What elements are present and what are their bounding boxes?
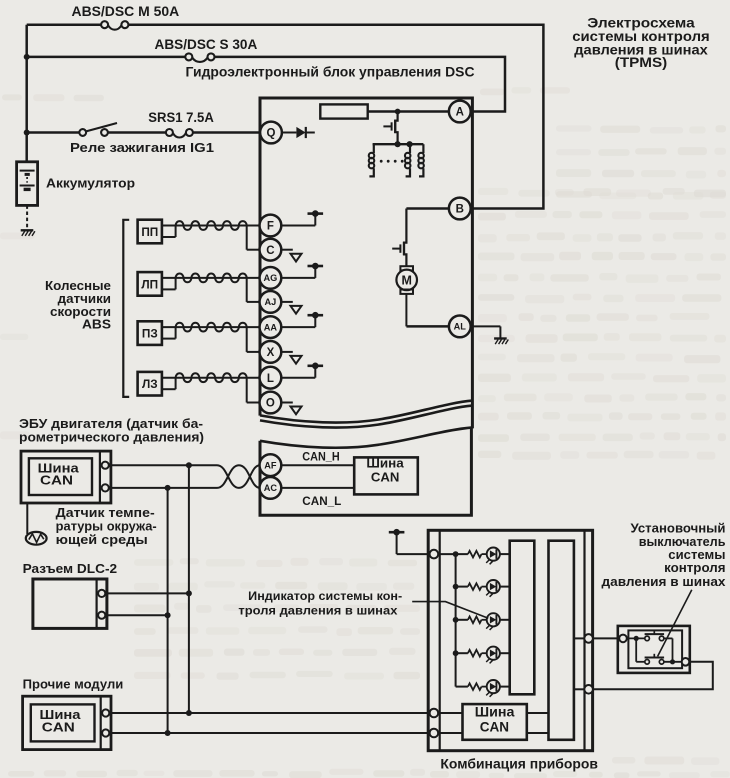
svg-text:CAN_H: CAN_H	[302, 450, 339, 463]
svg-text:системы: системы	[668, 548, 725, 562]
svg-text:датчики: датчики	[58, 292, 111, 306]
svg-text:C: C	[266, 245, 274, 257]
svg-text:SRS1 7.5A: SRS1 7.5A	[148, 110, 214, 125]
svg-text:Шина: Шина	[475, 704, 515, 720]
svg-text:Колесные: Колесные	[45, 279, 111, 293]
svg-text:ЛЗ: ЛЗ	[142, 377, 158, 391]
svg-text:AL: AL	[454, 322, 467, 332]
svg-text:AA: AA	[264, 322, 278, 332]
svg-text:F: F	[267, 221, 274, 233]
svg-text:AF: AF	[264, 461, 277, 471]
svg-text:Индикатор системы кон-: Индикатор системы кон-	[248, 589, 402, 603]
svg-text:ABS/DSC S 30A: ABS/DSC S 30A	[155, 37, 258, 52]
svg-text:CAN: CAN	[371, 469, 400, 484]
svg-text:выключатель: выключатель	[639, 535, 726, 549]
svg-text:CAN: CAN	[40, 473, 73, 488]
svg-text:давления в шинах: давления в шинах	[602, 575, 726, 589]
svg-text:B: B	[456, 204, 464, 216]
svg-text:контроля: контроля	[664, 561, 725, 575]
svg-text:ПЗ: ПЗ	[142, 327, 158, 341]
svg-text:O: O	[266, 398, 275, 410]
svg-text:Аккумулятор: Аккумулятор	[46, 176, 135, 191]
svg-text:Прочие модули: Прочие модули	[23, 677, 124, 692]
svg-text:ПП: ПП	[141, 225, 158, 239]
svg-text:AJ: AJ	[265, 297, 277, 307]
svg-text:ABS: ABS	[82, 317, 111, 331]
svg-text:Комбинация приборов: Комбинация приборов	[440, 757, 598, 772]
svg-text:AC: AC	[264, 483, 278, 493]
svg-text:CAN_L: CAN_L	[302, 495, 341, 508]
svg-text:Гидроэлектронный блок управлен: Гидроэлектронный блок управления DSC	[186, 65, 475, 80]
svg-text:Q: Q	[267, 128, 276, 140]
svg-text:(TPMS): (TPMS)	[615, 55, 668, 70]
svg-text:Реле зажигания IG1: Реле зажигания IG1	[70, 140, 214, 155]
svg-text:AG: AG	[264, 273, 278, 283]
svg-text:ABS/DSC M 50A: ABS/DSC M 50A	[72, 4, 180, 19]
svg-text:M: M	[401, 273, 411, 287]
svg-text:Шина: Шина	[366, 455, 404, 470]
svg-text:рометрического давления): рометрического давления)	[19, 430, 204, 445]
svg-text:ЛП: ЛП	[141, 277, 158, 291]
svg-text:троля давления в шинах: троля давления в шинах	[238, 604, 397, 618]
svg-text:Установочный: Установочный	[631, 522, 726, 536]
svg-text:L: L	[267, 373, 274, 385]
svg-text:CAN: CAN	[480, 719, 509, 735]
svg-text:X: X	[267, 347, 275, 359]
svg-text:Разъем DLC-2: Разъем DLC-2	[23, 561, 118, 576]
svg-text:A: A	[456, 107, 464, 119]
svg-text:CAN: CAN	[42, 720, 75, 735]
svg-text:ющей среды: ющей среды	[56, 532, 148, 547]
